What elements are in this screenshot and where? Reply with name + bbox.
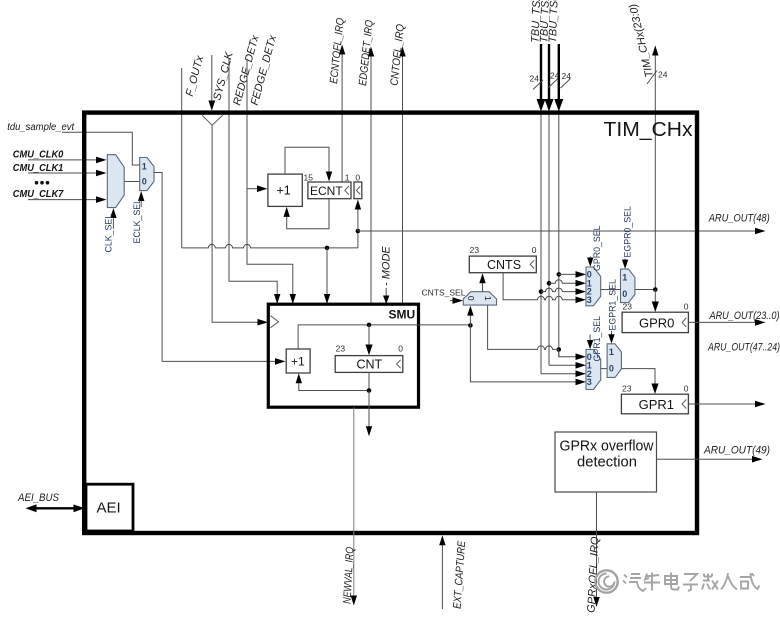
wire REDGE_DETx [229,59,280,304]
junction to SMU filter input [324,246,330,304]
wire CMU_CLK0 [28,157,107,164]
label MODE [381,246,393,304]
wire CNT bottom loop [296,372,372,392]
wire EGPR1 out to GPR1 [621,369,658,394]
wire ARU_OUT(23..0) [688,319,765,326]
wire ARU_OUT(48) [358,228,766,235]
svg-text:tdu_sample_evt: tdu_sample_evt [7,121,75,133]
wire ECNT feedback top [285,147,332,181]
svg-text:SYS_CLK: SYS_CLK [211,50,236,102]
bus width 24 TS2 [530,74,544,90]
wire TS1 to GPR0 mux in1 [547,280,586,287]
wire ARU_OUT(49) [657,456,763,463]
svg-text:EGPR0_SEL: EGPR0_SEL [623,206,633,257]
svg-text:23: 23 [622,383,632,393]
wire TBU_TS0 [554,44,563,357]
node ECNT bit0 feed [355,200,361,248]
mux ECLK_SEL [140,158,154,191]
svg-text:F_OUTx: F_OUTx [184,54,206,98]
svg-text:AEI_BUS: AEI_BUS [17,492,59,504]
wire GPR0 mux out [601,289,621,291]
svg-text:3: 3 [587,377,592,387]
register GPR0 [622,312,688,332]
wire F_OUTx [182,68,358,248]
svg-text:23: 23 [336,343,346,353]
wire TS2 to GPR0 mux in2 [539,288,586,295]
block GPRx overflow detection [555,432,657,492]
label ECLK_SEL [132,191,144,244]
wire edge tap to ECNT plus1 [247,185,268,192]
svg-text:- MODE: - MODE [381,246,393,286]
counter +1 SMU [286,349,310,373]
wire EGPR0 out to GPR0 [635,287,659,312]
label EGPR1_SEL [608,279,618,344]
wire TS0 to CNTS mux in1 [488,305,559,349]
wire TS0 to GPR1 mux in0 [557,347,587,360]
wire ECLK output to SMU plus1 [154,173,286,365]
mux CNTS_SEL [463,292,496,305]
wire GPRxOFL_IRQ [593,492,599,607]
svg-text:EGPR1_SEL: EGPR1_SEL [608,279,618,330]
mux EGPR0_SEL [621,269,635,303]
wire ECNT feedback bottom [284,199,330,229]
wire TIM_CHx(23:0) [652,46,658,290]
wire TBU_TS2 [537,44,546,374]
svg-text:TIM_CHx(23:0): TIM_CHx(23:0) [627,2,656,78]
svg-text:23: 23 [623,301,633,311]
wire CNTS out to GPR0 mux in3 [503,273,586,303]
svg-text:EXT_CAPTURE: EXT_CAPTURE [452,540,469,609]
svg-text:1: 1 [483,296,493,301]
svg-text:GPR0_SEL: GPR0_SEL [592,225,602,271]
svg-text:ARU_OUT(47..24): ARU_OUT(47..24) [707,342,780,354]
wire TS1 to GPR1 mux in1 [549,362,586,369]
svg-text:24: 24 [530,74,540,84]
svg-text:CNTS_SEL: CNTS_SEL [422,288,466,298]
bus width 24 TS0 [561,71,572,88]
label EGPR0_SEL [622,206,633,269]
svg-text:GPR1: GPR1 [639,397,674,412]
svg-text:TBU_TS0: TBU_TS0 [547,0,561,43]
wire ARU_OUT(47..24) arrow [688,401,765,408]
wire funnel to SMU clock input [212,125,268,325]
svg-text:CMU_CLK0: CMU_CLK0 [13,149,64,161]
label GPR1_SEL [587,316,602,362]
wire CNT to GPR1 mux in3 [470,325,586,385]
block AEI [86,484,133,531]
mux EGPR1_SEL [607,344,621,378]
wire CMU_CLK7 [28,196,107,203]
svg-text:EDGEDET_IRQ: EDGEDET_IRQ [357,19,376,86]
node CNT to CNTS select [467,306,473,328]
filter funnel [202,115,223,125]
svg-text:ECLK_SEL: ECLK_SEL [132,199,142,244]
register ECNT [308,182,351,199]
svg-text:0: 0 [142,176,147,186]
svg-text:1: 1 [345,172,350,182]
svg-text:GPR0: GPR0 [639,315,674,330]
svg-text:24: 24 [562,71,572,81]
bus width 24 TIM_CHx [647,70,668,85]
svg-text:TIM_CHx: TIM_CHx [604,118,694,141]
wire CNTS mux to CNTS [479,273,485,292]
wire CMU_CLK1 [28,170,107,177]
svg-text:1: 1 [622,272,627,282]
svg-text:0: 0 [398,343,403,353]
wire EDGEDET_IRQ [368,47,374,305]
ellipsis dots [35,181,50,185]
svg-text:+1: +1 [291,354,305,368]
svg-text:1: 1 [609,347,614,357]
wire EXT_CAPTURE [439,535,445,609]
main frame TIM_CHx [84,113,697,533]
svg-text:AEI: AEI [97,500,121,517]
mux GPR0_SEL [586,267,601,306]
mux CLK_SEL [107,155,124,208]
svg-text:GPRx overflow: GPRx overflow [560,439,655,455]
SMU clock chevron [271,316,279,328]
wire ECNTOFL_IRQ [339,45,345,183]
svg-text:0: 0 [532,245,537,255]
wire TS2 to GPR1 mux in2 [541,370,586,377]
svg-text:0: 0 [355,172,360,182]
wire SYS_CLK [208,55,215,111]
svg-text:CNT: CNT [357,358,383,372]
svg-text:CMU_CLK7: CMU_CLK7 [13,188,65,200]
wire FEDGE_DETx [247,59,296,304]
label CNTS_SEL [422,288,466,304]
register CNT [335,356,403,373]
wire CLK mux output [124,181,140,183]
logo text automotive electronics embedded [623,573,760,592]
label CLK_SEL [104,208,117,253]
SMU frame [268,304,418,407]
svg-text:0: 0 [684,301,689,311]
label GPR0_SEL [587,225,602,271]
svg-text:GPR1_SEL: GPR1_SEL [592,316,602,362]
svg-text:24: 24 [658,70,668,80]
svg-text:ARU_OUT(23..0): ARU_OUT(23..0) [709,310,780,322]
logo icon [595,570,617,592]
svg-text:0: 0 [684,383,689,393]
svg-text:SMU: SMU [389,308,416,322]
wire TBU_TS1 [545,44,554,365]
svg-text:0: 0 [466,296,476,301]
wire CNT value down [366,391,372,437]
svg-text:1: 1 [142,162,147,172]
svg-text:0: 0 [609,364,614,374]
svg-text:ECNTOFL_IRQ: ECNTOFL_IRQ [328,17,347,84]
wire GPR1 mux out [601,368,607,370]
wire TS0 to GPR0 mux in0 [557,271,587,278]
svg-text:23: 23 [470,245,480,255]
svg-text:0: 0 [622,289,627,299]
svg-text:+1: +1 [277,184,291,198]
wire CNTOFL_IRQ [399,47,405,305]
svg-text:CMU_CLK1: CMU_CLK1 [13,162,64,174]
register GPR1 [621,394,688,414]
svg-text:15: 15 [304,172,314,182]
svg-text:ARU_OUT(49): ARU_OUT(49) [703,445,770,457]
wire CNT bus from +1 [298,323,470,356]
wire NEWVAL_IRQ [351,407,357,605]
bus width 24 TS1 [549,71,560,88]
svg-text:ECNT: ECNT [310,184,343,198]
mux GPR1_SEL [586,350,601,390]
svg-text:ARU_OUT(48): ARU_OUT(48) [708,213,770,225]
register ECNT bit0 [354,182,362,199]
svg-text:CLK_SEL: CLK_SEL [104,214,114,253]
wire tdu_sample_evt [62,132,140,165]
svg-text:detection: detection [577,455,637,471]
register CNTS [469,256,536,273]
svg-text:3: 3 [587,295,592,305]
counter +1 ECNT [268,174,302,206]
bus AEI_BUS double arrow [26,504,85,512]
svg-text:CNTS: CNTS [487,258,521,272]
